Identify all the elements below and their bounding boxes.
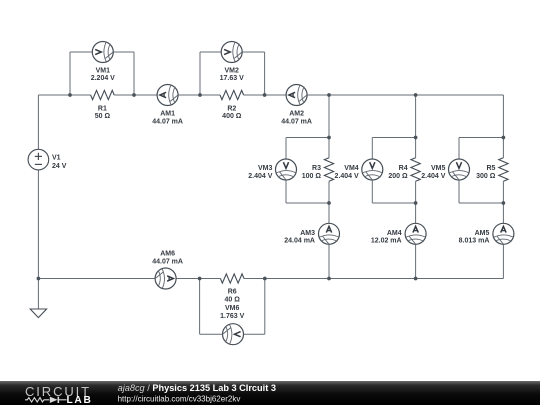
svg-text:AM3: AM3: [300, 230, 315, 237]
svg-text:R4: R4: [399, 165, 408, 172]
svg-text:VM2: VM2: [224, 68, 239, 75]
svg-text:R5: R5: [486, 165, 495, 172]
svg-text:VM1: VM1: [96, 68, 111, 75]
svg-text:V1: V1: [52, 154, 61, 161]
svg-text:aja8cg / Physics 2135 Lab 3 CI: aja8cg / Physics 2135 Lab 3 CIrcuit 3: [118, 383, 276, 393]
svg-text:44.07 mA: 44.07 mA: [152, 259, 183, 266]
svg-text:AM1: AM1: [160, 111, 175, 118]
svg-text:24 V: 24 V: [52, 163, 67, 170]
svg-text:AM5: AM5: [475, 230, 490, 237]
svg-text:R6: R6: [228, 289, 237, 296]
svg-text:VM6: VM6: [225, 305, 240, 312]
svg-text:http://circuitlab.com/cv33bj62: http://circuitlab.com/cv33bj62er2kv: [118, 394, 241, 403]
svg-text:17.63 V: 17.63 V: [220, 75, 244, 82]
svg-text:300 Ω: 300 Ω: [476, 173, 496, 180]
svg-text:R2: R2: [227, 105, 236, 112]
svg-text:100 Ω: 100 Ω: [302, 173, 322, 180]
svg-text:400 Ω: 400 Ω: [222, 113, 242, 120]
svg-text:LAB: LAB: [67, 395, 93, 405]
svg-text:200 Ω: 200 Ω: [388, 173, 408, 180]
svg-text:2.204 V: 2.204 V: [91, 75, 115, 82]
svg-text:VM4: VM4: [344, 165, 359, 172]
svg-text:VM5: VM5: [431, 165, 446, 172]
svg-text:40 Ω: 40 Ω: [225, 297, 241, 304]
svg-text:AM4: AM4: [387, 230, 402, 237]
svg-text:R3: R3: [312, 165, 321, 172]
svg-text:44.07 mA: 44.07 mA: [281, 119, 312, 126]
svg-text:2.404 V: 2.404 V: [421, 173, 445, 180]
svg-text:AM6: AM6: [160, 251, 175, 258]
svg-text:2.404 V: 2.404 V: [248, 173, 272, 180]
svg-text:12.02 mA: 12.02 mA: [371, 238, 402, 245]
svg-text:AM2: AM2: [289, 111, 304, 118]
svg-text:1.763 V: 1.763 V: [220, 313, 244, 320]
svg-text:50 Ω: 50 Ω: [95, 113, 111, 120]
svg-text:24.04 mA: 24.04 mA: [284, 238, 315, 245]
svg-text:R1: R1: [98, 105, 107, 112]
svg-text:VM3: VM3: [258, 165, 273, 172]
svg-text:44.07 mA: 44.07 mA: [152, 119, 183, 126]
svg-text:8.013 mA: 8.013 mA: [459, 238, 490, 245]
svg-text:2.404 V: 2.404 V: [335, 173, 359, 180]
